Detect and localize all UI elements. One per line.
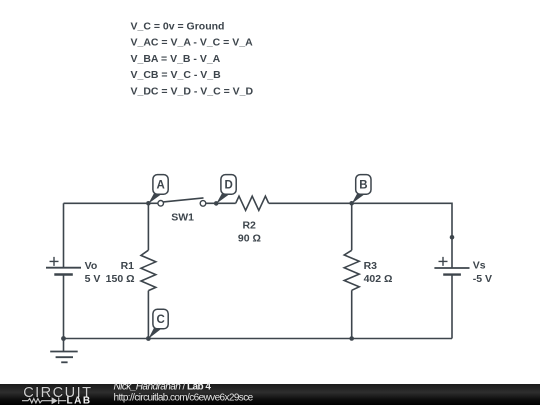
wire: R2 to node B bbox=[269, 202, 352, 204]
CircuitLab logo: resistor-diode rule bbox=[22, 397, 66, 404]
junction node D bbox=[214, 201, 219, 206]
junction R3 bottom bbox=[349, 336, 354, 341]
junction on right wire (Vs + node) bbox=[450, 235, 455, 240]
node A flag bbox=[148, 175, 168, 204]
voltage source Vs (battery) bbox=[434, 257, 469, 275]
voltage source Vo (battery) bbox=[46, 257, 81, 275]
resistor R2 bbox=[236, 196, 269, 210]
wire: top rail right (node B to right corner) and right vertical to Vs bbox=[352, 203, 452, 268]
node D flag bbox=[216, 175, 236, 204]
wire: left vertical (Vo - terminal to bottom rail) bbox=[63, 275, 65, 339]
wire: switch to R2 (through node D) bbox=[206, 202, 236, 204]
junction node C bbox=[146, 336, 151, 341]
junction node A bbox=[146, 201, 151, 206]
svg-text:Nick_Handrahan / Lab 4: Nick_Handrahan / Lab 4 bbox=[114, 381, 212, 392]
wire: right vertical (Vs - terminal to bottom rail) bbox=[451, 275, 453, 339]
wire: left vertical (top rail down to Vo + terminal) bbox=[63, 203, 65, 267]
wire: node A to switch terminal bbox=[148, 202, 158, 204]
wire: top rail left (Vo top to node A) bbox=[64, 202, 149, 204]
wire: R3 branch upper (node B down to R3) bbox=[351, 203, 353, 250]
node C flag bbox=[148, 309, 168, 339]
wire: R1 branch upper (node A down to R1) bbox=[147, 203, 149, 250]
wire: R1 bottom to bottom rail (node C) bbox=[147, 291, 149, 339]
footer bar bbox=[0, 384, 540, 405]
ground bbox=[50, 339, 77, 363]
svg-text:LAB: LAB bbox=[67, 396, 92, 405]
svg-text:http://circuitlab.com/c6ewve6x: http://circuitlab.com/c6ewve6x29sce bbox=[114, 393, 254, 404]
resistor R1 bbox=[141, 250, 156, 290]
wire: bottom rail bbox=[64, 338, 453, 340]
switch SW1 bbox=[158, 198, 206, 206]
wire: R3 bottom to bottom rail bbox=[351, 290, 353, 338]
resistor R3 bbox=[344, 250, 359, 290]
node B flag bbox=[352, 175, 371, 204]
junction node B bbox=[349, 201, 354, 206]
junction ground tap bbox=[61, 336, 66, 341]
